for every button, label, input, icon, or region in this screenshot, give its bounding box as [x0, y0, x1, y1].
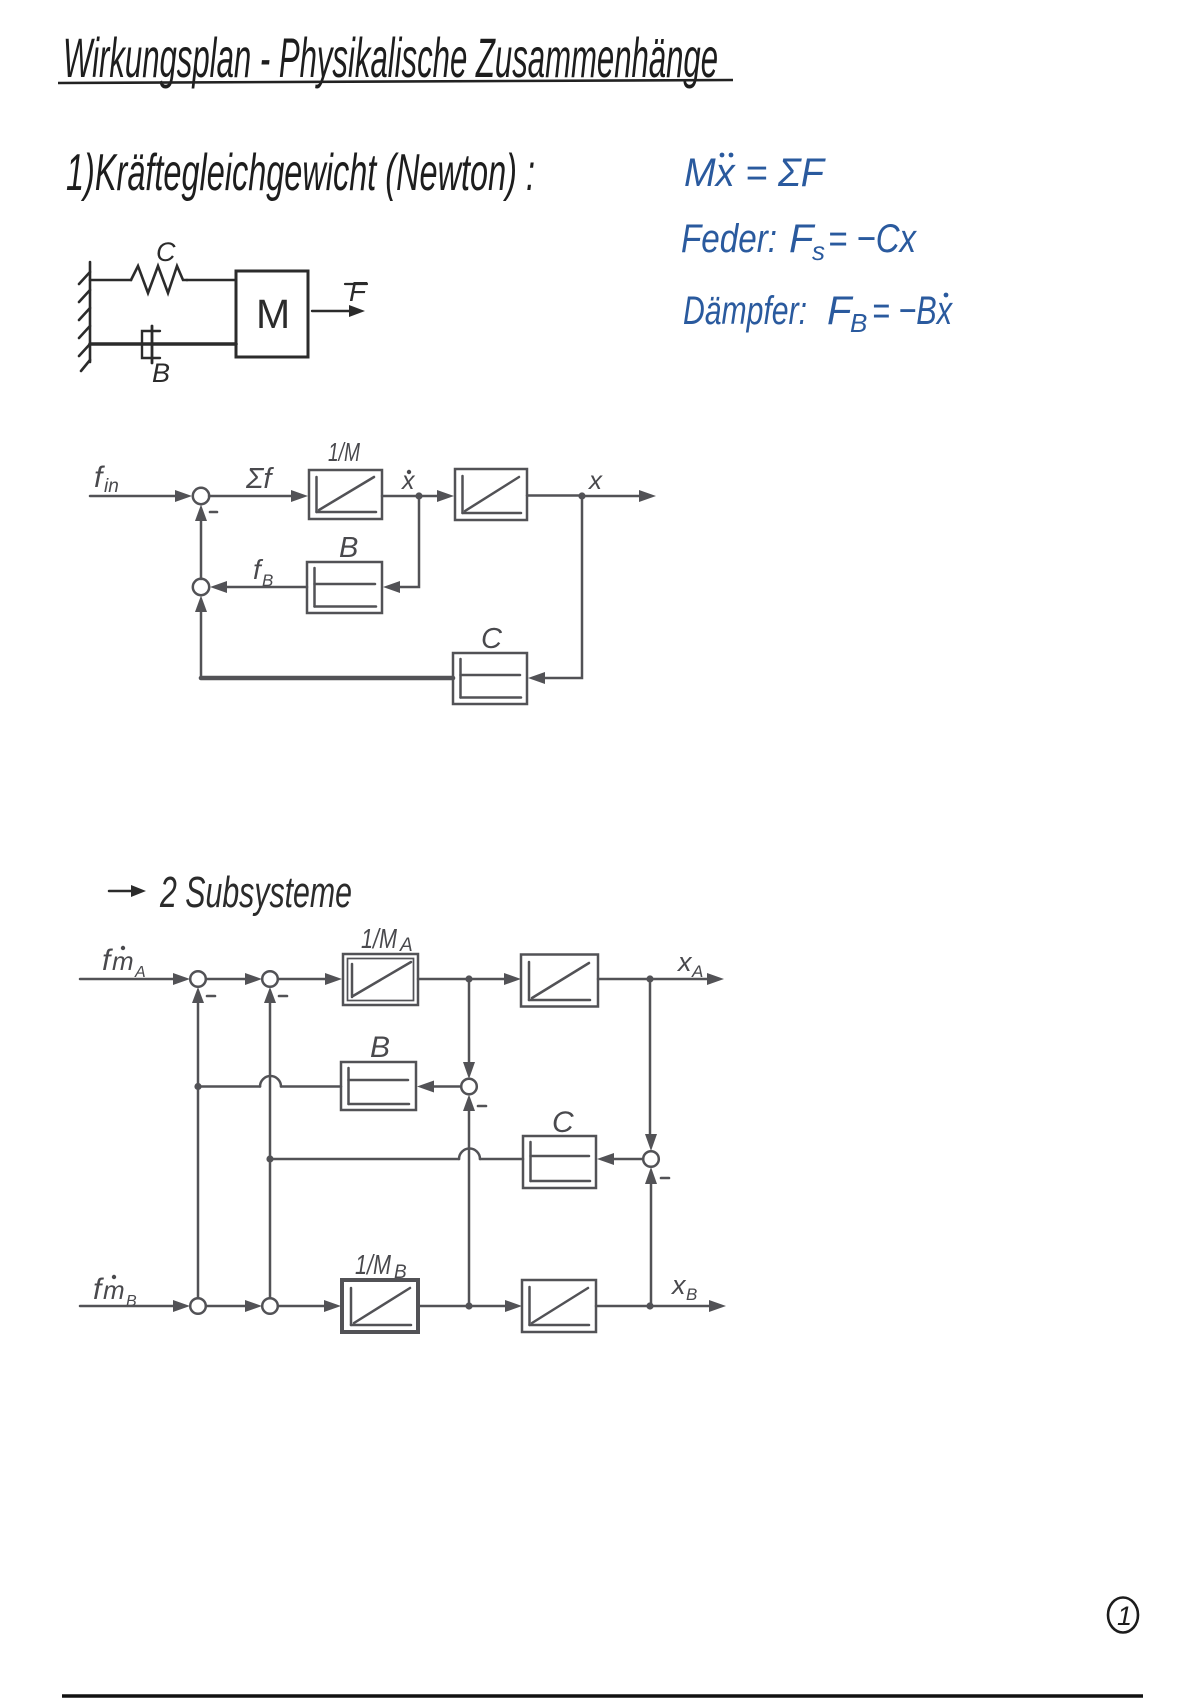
junction dot x-dot — [415, 492, 422, 499]
summing junction B2 — [262, 1298, 278, 1314]
minus sign at A2 — [279, 995, 287, 998]
junction dot xA — [646, 975, 653, 982]
block 1/MB (integrator, bold border) — [342, 1280, 418, 1332]
junction dot xdotB — [465, 1302, 472, 1309]
block 1/M (integrator) — [309, 470, 382, 519]
node xA label — [676, 947, 703, 981]
node xB label — [670, 1270, 697, 1304]
node x-dot label — [401, 467, 416, 495]
wire: 1/MA to node xdotA — [418, 978, 469, 981]
summing junction A2 — [262, 971, 278, 987]
svg-text:Mx = ΣF: Mx = ΣF — [684, 151, 826, 195]
minus sign at M — [478, 1105, 486, 1108]
wire: x1 rail down to sum B1 — [197, 1087, 200, 1299]
minus sign at S1 — [210, 511, 217, 514]
minus sign at A1 — [207, 995, 215, 998]
svg-text:B: B — [152, 358, 170, 388]
wire: xA output arrow — [650, 978, 708, 981]
svg-text:= −Cx: = −Cx — [828, 217, 918, 261]
wire: B to sum S2 — [226, 586, 307, 589]
block integrator 2A — [521, 955, 598, 1007]
wire: B1 to sum B2 — [206, 1305, 246, 1308]
wire: xdotB to integrator 2B — [469, 1305, 507, 1308]
block C (gain) — [453, 653, 527, 704]
spring C (wire + zigzag) — [90, 279, 131, 282]
wire: S2 up to S1 (minus) — [200, 520, 203, 579]
svg-text:x: x — [587, 465, 603, 495]
svg-text:2 Subsysteme: 2 Subsysteme — [159, 868, 352, 917]
junction dot C-output on x2 rail — [266, 1155, 273, 1162]
svg-text:B: B — [262, 571, 273, 590]
minus sign at R — [661, 1177, 669, 1180]
damper rod (wall to mass, thick) — [90, 342, 236, 346]
svg-text:Feder:: Feder: — [681, 217, 777, 261]
junction dot xB — [646, 1302, 653, 1309]
svg-text:A: A — [399, 935, 413, 956]
label 1/M — [328, 437, 360, 467]
wire: fmB input to sum B1 — [80, 1305, 173, 1308]
subsection heading: -> 2 Subsysteme — [109, 868, 352, 917]
wire: x2 rail down to sum B2 — [269, 1159, 272, 1298]
svg-text:F: F — [349, 276, 368, 307]
wire: xdotA down into sum M — [468, 979, 471, 1063]
svg-text:1/M: 1/M — [361, 923, 398, 954]
wire: xA down into sum R — [649, 979, 652, 1135]
block B (gain) — [307, 562, 382, 613]
wall — [89, 262, 92, 362]
wire: C-line feedback up into A2 (minus) — [269, 1002, 272, 1159]
svg-text:1/M: 1/M — [355, 1249, 392, 1280]
wall hatching — [79, 272, 90, 284]
wire: x-dot down to block B — [400, 496, 419, 587]
wire: B-line feedback up into A1 (minus) — [197, 1002, 200, 1087]
svg-text:1/M: 1/M — [328, 437, 360, 467]
svg-text:1)Kräftegleichgewicht (Newton: 1)Kräftegleichgewicht (Newton) : — [66, 144, 535, 202]
svg-text:B: B — [370, 1031, 390, 1064]
wire: sum M to block B — [434, 1085, 461, 1088]
summing junction M (xdotA - xdotB) — [461, 1079, 477, 1095]
svg-text:x: x — [670, 1270, 687, 1300]
summing junction S1 — [193, 488, 209, 504]
label 1/MB — [355, 1249, 407, 1283]
summing junction A1 — [190, 971, 206, 987]
svg-text:B: B — [394, 1262, 407, 1283]
wire: input fin to sum S1 — [90, 495, 176, 498]
svg-text:C: C — [481, 623, 503, 655]
wire: fmA input to sum A1 — [80, 978, 173, 981]
svg-text:in: in — [104, 476, 119, 497]
junction dot xdotA — [465, 975, 472, 982]
wire: x output arrow — [582, 495, 640, 498]
svg-text:C: C — [156, 237, 176, 267]
node fmB input label — [93, 1273, 137, 1310]
page number circle 1 — [1108, 1598, 1138, 1633]
block integrator 2B — [522, 1280, 596, 1332]
wire: x-dot to integrator 2 — [419, 495, 438, 498]
wire: A1 to sum A2 — [206, 978, 246, 981]
svg-text:B: B — [850, 308, 867, 338]
svg-text:= −Bx: = −Bx — [872, 289, 954, 333]
wire: C feedback up into S2 (thick bottom run) — [200, 612, 203, 678]
svg-text:M: M — [256, 291, 290, 337]
dot over x (x-dot) — [944, 293, 949, 298]
svg-text:B: B — [686, 1285, 697, 1304]
junction dot x — [578, 492, 585, 499]
wire: integrator 2B to node xB — [596, 1305, 650, 1308]
block B (gain) — [341, 1062, 416, 1110]
force arrow F — [312, 310, 352, 312]
svg-text:B: B — [126, 1293, 137, 1310]
bottom rule — [62, 1694, 1143, 1697]
wire: sum M down rail to row B junction (minus into M) — [468, 1110, 471, 1306]
svg-text:s: s — [812, 236, 825, 266]
svg-text:C: C — [552, 1106, 574, 1139]
mass M box — [236, 271, 308, 357]
wire: xB up rail into sum R (minus) — [650, 1183, 653, 1306]
block 1/MA (integrator) — [343, 954, 418, 1005]
label 1/MA — [361, 923, 413, 956]
svg-text:x: x — [676, 947, 693, 977]
block C (gain) — [523, 1136, 596, 1188]
node fin input label — [94, 461, 119, 497]
wire: x down to block C — [545, 496, 582, 678]
svg-text:Dämpfer:: Dämpfer: — [683, 289, 807, 333]
junction dot B-output on x1 rail — [194, 1083, 201, 1090]
title underline — [58, 80, 733, 83]
block integrator 2 — [455, 469, 527, 520]
svg-text:m: m — [112, 946, 134, 976]
svg-text:1: 1 — [1117, 1601, 1132, 1631]
summing junction B1 — [190, 1298, 206, 1314]
wire: integrator 2A to node xA — [598, 978, 650, 981]
summing junction R (xA - xB) — [643, 1151, 659, 1167]
damper cylinder B — [142, 331, 160, 358]
double dot over x (x-dotdot) — [720, 153, 725, 158]
node fB label — [253, 554, 273, 590]
wire: A2 to block 1/MA — [278, 978, 326, 981]
wire: S1 to integrator 1/M — [209, 495, 292, 498]
damper piston plate — [151, 326, 154, 363]
wire: block B output to x1 rail (hop over x2 rail) — [281, 1085, 341, 1088]
wire: xB output arrow — [650, 1305, 710, 1308]
svg-text:Σf: Σf — [245, 463, 274, 495]
wire: integrator 2 to node x — [527, 494, 582, 497]
wire: 1/M to node x-dot — [382, 495, 419, 498]
wire: B2 to block 1/MB — [278, 1305, 325, 1308]
wire: xdotA to integrator 2A — [469, 978, 506, 981]
svg-text:B: B — [339, 532, 358, 564]
wire: block C output to x2 rail (hop over M rail) — [480, 1158, 523, 1161]
svg-text:m: m — [103, 1275, 125, 1305]
summing junction S2 — [193, 579, 209, 595]
node fmA input label — [102, 944, 146, 981]
wire: sum R to block C — [614, 1158, 643, 1161]
wire: 1/MB to node xdotB — [418, 1305, 469, 1308]
